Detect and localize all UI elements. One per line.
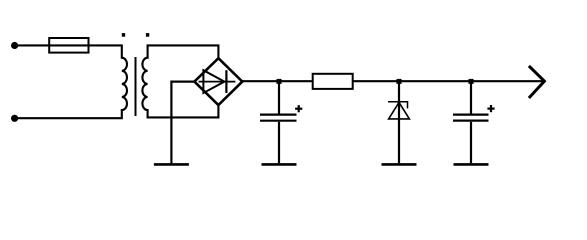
node: junction at C1 bbox=[277, 79, 282, 84]
wire: C2 branch lower bbox=[470, 122, 472, 163]
zener diode D2 bbox=[388, 102, 409, 119]
wire: top input wire through fuse, transformer primary winding, bottom input wire bbox=[15, 45, 127, 118]
node: input terminal (bottom) bbox=[11, 115, 18, 122]
node: output arrow bbox=[529, 66, 545, 98]
transformer T1 polarity dot (primary) bbox=[122, 33, 125, 37]
ground (bridge negative) bbox=[154, 163, 189, 166]
wire: positive output rail bbox=[242, 80, 543, 82]
wire: C1 branch upper bbox=[278, 81, 280, 113]
capacitor C1 (polarized, plates) bbox=[260, 115, 297, 121]
ground (C2) bbox=[454, 163, 489, 166]
transformer T1 core bbox=[135, 57, 137, 116]
bridge rectifier D1 internal diode symbol bbox=[199, 70, 236, 93]
wire: bridge negative terminal to ground bbox=[171, 82, 194, 164]
ground (C1) bbox=[262, 163, 297, 166]
label: C1 plus polarity mark bbox=[295, 105, 302, 112]
wire: zener branch to ground bbox=[398, 81, 400, 163]
node: junction at D2 bbox=[397, 79, 402, 84]
wire: C2 branch upper bbox=[470, 81, 472, 113]
label: C2 plus polarity mark bbox=[487, 105, 494, 112]
resistor R1 bbox=[313, 74, 353, 89]
node: input terminal (top) bbox=[11, 42, 18, 49]
wire: transformer secondary winding loop to bridge AC inputs bbox=[142, 45, 218, 117]
capacitor C2 (polarized, plates) bbox=[453, 115, 489, 121]
fuse F1 bbox=[49, 38, 88, 53]
node: junction at C2 bbox=[469, 79, 474, 84]
bridge rectifier D1 (diamond body) bbox=[194, 58, 242, 105]
transformer T1 polarity dot (secondary) bbox=[146, 33, 149, 37]
wire: C1 branch lower bbox=[278, 122, 280, 163]
ground (D2) bbox=[382, 163, 417, 166]
